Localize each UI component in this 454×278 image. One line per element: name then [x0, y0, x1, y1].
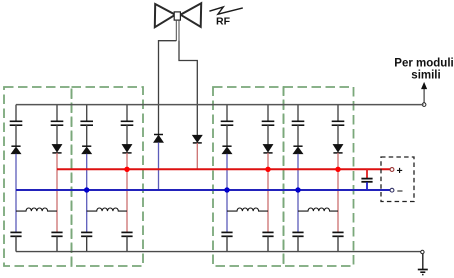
module 4 inductor [298, 208, 338, 211]
module 2 wire right lower capacitor to bottom bus [126, 236, 128, 251]
module 3 diode left (cathode up) [222, 146, 232, 154]
module 4 wire left lower capacitor to bottom bus [297, 236, 299, 251]
module 3 wire right diode to lower capacitor (red) [267, 153, 269, 233]
module 2 wire top-bus to left capacitor [86, 105, 88, 122]
module 2 enclosure (dashed) [72, 87, 144, 266]
diode feed-left (cathode up) [154, 135, 164, 143]
wire feed-right diode to red bus [196, 143, 198, 169]
module 1 wire right lower capacitor to bottom bus [56, 236, 58, 251]
module 4 wire left capacitor to diode [297, 125, 299, 146]
top bus wire [16, 104, 424, 106]
module 1 wire top-bus to left capacitor [15, 105, 17, 122]
output capacitor [361, 179, 372, 182]
module 4 enclosure (dashed) [284, 87, 354, 266]
module 4 wire right diode to lower capacitor (red) [337, 153, 339, 233]
module 2 capacitor left [80, 121, 93, 125]
module 3 capacitor left [221, 121, 234, 125]
module 2 diode right (cathode down) [122, 144, 132, 153]
module 4 lower capacitor left [292, 232, 303, 236]
module 4 wire right capacitor to diode [337, 125, 339, 144]
wire antenna to left feed [159, 41, 177, 134]
module 4 wire left diode to lower capacitor (blue) [297, 154, 299, 233]
diode feed-right (cathode down) [192, 135, 202, 143]
antenna feed block [174, 12, 180, 20]
module 2 lower capacitor left [81, 232, 92, 236]
module 4 wire top-bus to right capacitor [337, 105, 339, 122]
module 3 lower capacitor left [221, 232, 232, 236]
wire antenna to right feed [179, 41, 197, 135]
wire to ground [422, 254, 424, 269]
module 4 diode left (cathode up) [293, 146, 303, 154]
module 2 wire right diode to lower capacitor (red) [126, 153, 128, 233]
blue bus (negative rail) [16, 189, 390, 191]
node blue bus junction module 3 [224, 187, 229, 192]
module 4 capacitor right [332, 121, 345, 125]
module 1 diode left (cathode up) [11, 146, 21, 154]
node bottom bus to ground [421, 250, 424, 253]
module 3 wire right lower capacitor to bottom bus [267, 236, 269, 251]
antenna bowtie right wing [181, 3, 202, 27]
svg-text:–: – [397, 185, 403, 197]
ground symbol [418, 270, 428, 275]
module 3 wire left lower capacitor to bottom bus [226, 236, 228, 251]
module 1 wire right capacitor to diode [56, 125, 58, 144]
node top bus right end [422, 103, 426, 107]
output capacitor lead from red bus [366, 169, 368, 178]
antenna bowtie left wing [155, 4, 176, 27]
module 2 diode left (cathode up) [82, 146, 92, 154]
module 2 inductor [87, 208, 127, 211]
module 2 wire left diode to lower capacitor (blue) [86, 154, 88, 233]
module 1 diode right (cathode down) [52, 144, 62, 153]
output capacitor lead to blue bus [366, 182, 368, 190]
antenna feed stem (double line) [176, 20, 179, 41]
svg-text:simili: simili [411, 70, 440, 82]
bottom bus wire [16, 251, 421, 253]
module 1 wire left diode to lower capacitor (blue) [15, 154, 17, 233]
module 3 wire right capacitor to diode [267, 125, 269, 144]
module 1 inductor [16, 208, 57, 211]
module 3 wire top-bus to right capacitor [267, 105, 269, 122]
node blue bus junction module 2 [84, 187, 89, 192]
terminal - (negative output) [390, 188, 394, 192]
module 4 capacitor left [292, 121, 305, 125]
svg-text:RF: RF [216, 15, 231, 27]
module 3 diode right (cathode down) [263, 144, 273, 153]
module 1 enclosure (dashed) [4, 87, 72, 266]
module 2 lower capacitor right [121, 232, 132, 236]
module 1 capacitor right [51, 121, 64, 125]
module 3 enclosure (dashed) [213, 87, 284, 266]
module 1 lower capacitor left [10, 232, 21, 236]
node red bus junction module 2 [124, 167, 129, 172]
module 2 wire top-bus to right capacitor [126, 105, 128, 122]
output enclosure (dashed) [381, 157, 414, 202]
module 2 wire left capacitor to diode [86, 125, 88, 146]
module 4 wire right lower capacitor to bottom bus [337, 236, 339, 251]
module 1 wire left capacitor to diode [15, 125, 17, 146]
svg-text:+: + [397, 165, 403, 177]
module 4 lower capacitor right [332, 232, 343, 236]
module 3 wire left diode to lower capacitor (blue) [226, 154, 228, 233]
module 1 lower capacitor right [51, 232, 62, 236]
module 1 wire left lower capacitor to bottom bus [15, 236, 17, 251]
module 3 inductor [227, 208, 268, 211]
terminal + (positive output) [390, 168, 394, 172]
module 3 wire top-bus to left capacitor [226, 105, 228, 122]
wire feed-left diode to blue bus [158, 142, 160, 190]
module 2 capacitor right [121, 121, 134, 125]
arrow to similar modules [422, 83, 427, 103]
module 4 wire top-bus to left capacitor [297, 105, 299, 122]
RF arrow squiggle [209, 7, 242, 14]
node red bus junction module 3 [265, 167, 270, 172]
module 4 diode right (cathode down) [333, 144, 343, 153]
svg-text:Per moduli: Per moduli [394, 58, 453, 70]
module 3 capacitor right [262, 121, 275, 125]
module 1 wire right diode to lower capacitor (red) [56, 153, 58, 233]
module 1 wire top-bus to right capacitor [56, 105, 58, 122]
red bus (positive rail) [57, 168, 390, 170]
module 3 wire left capacitor to diode [226, 125, 228, 146]
module 3 lower capacitor right [262, 232, 273, 236]
node red bus junction module 4 [335, 167, 340, 172]
node blue bus junction module 4 [295, 187, 300, 192]
module 2 wire left lower capacitor to bottom bus [86, 236, 88, 251]
module 2 wire right capacitor to diode [126, 125, 128, 144]
module 1 capacitor left [10, 121, 23, 125]
